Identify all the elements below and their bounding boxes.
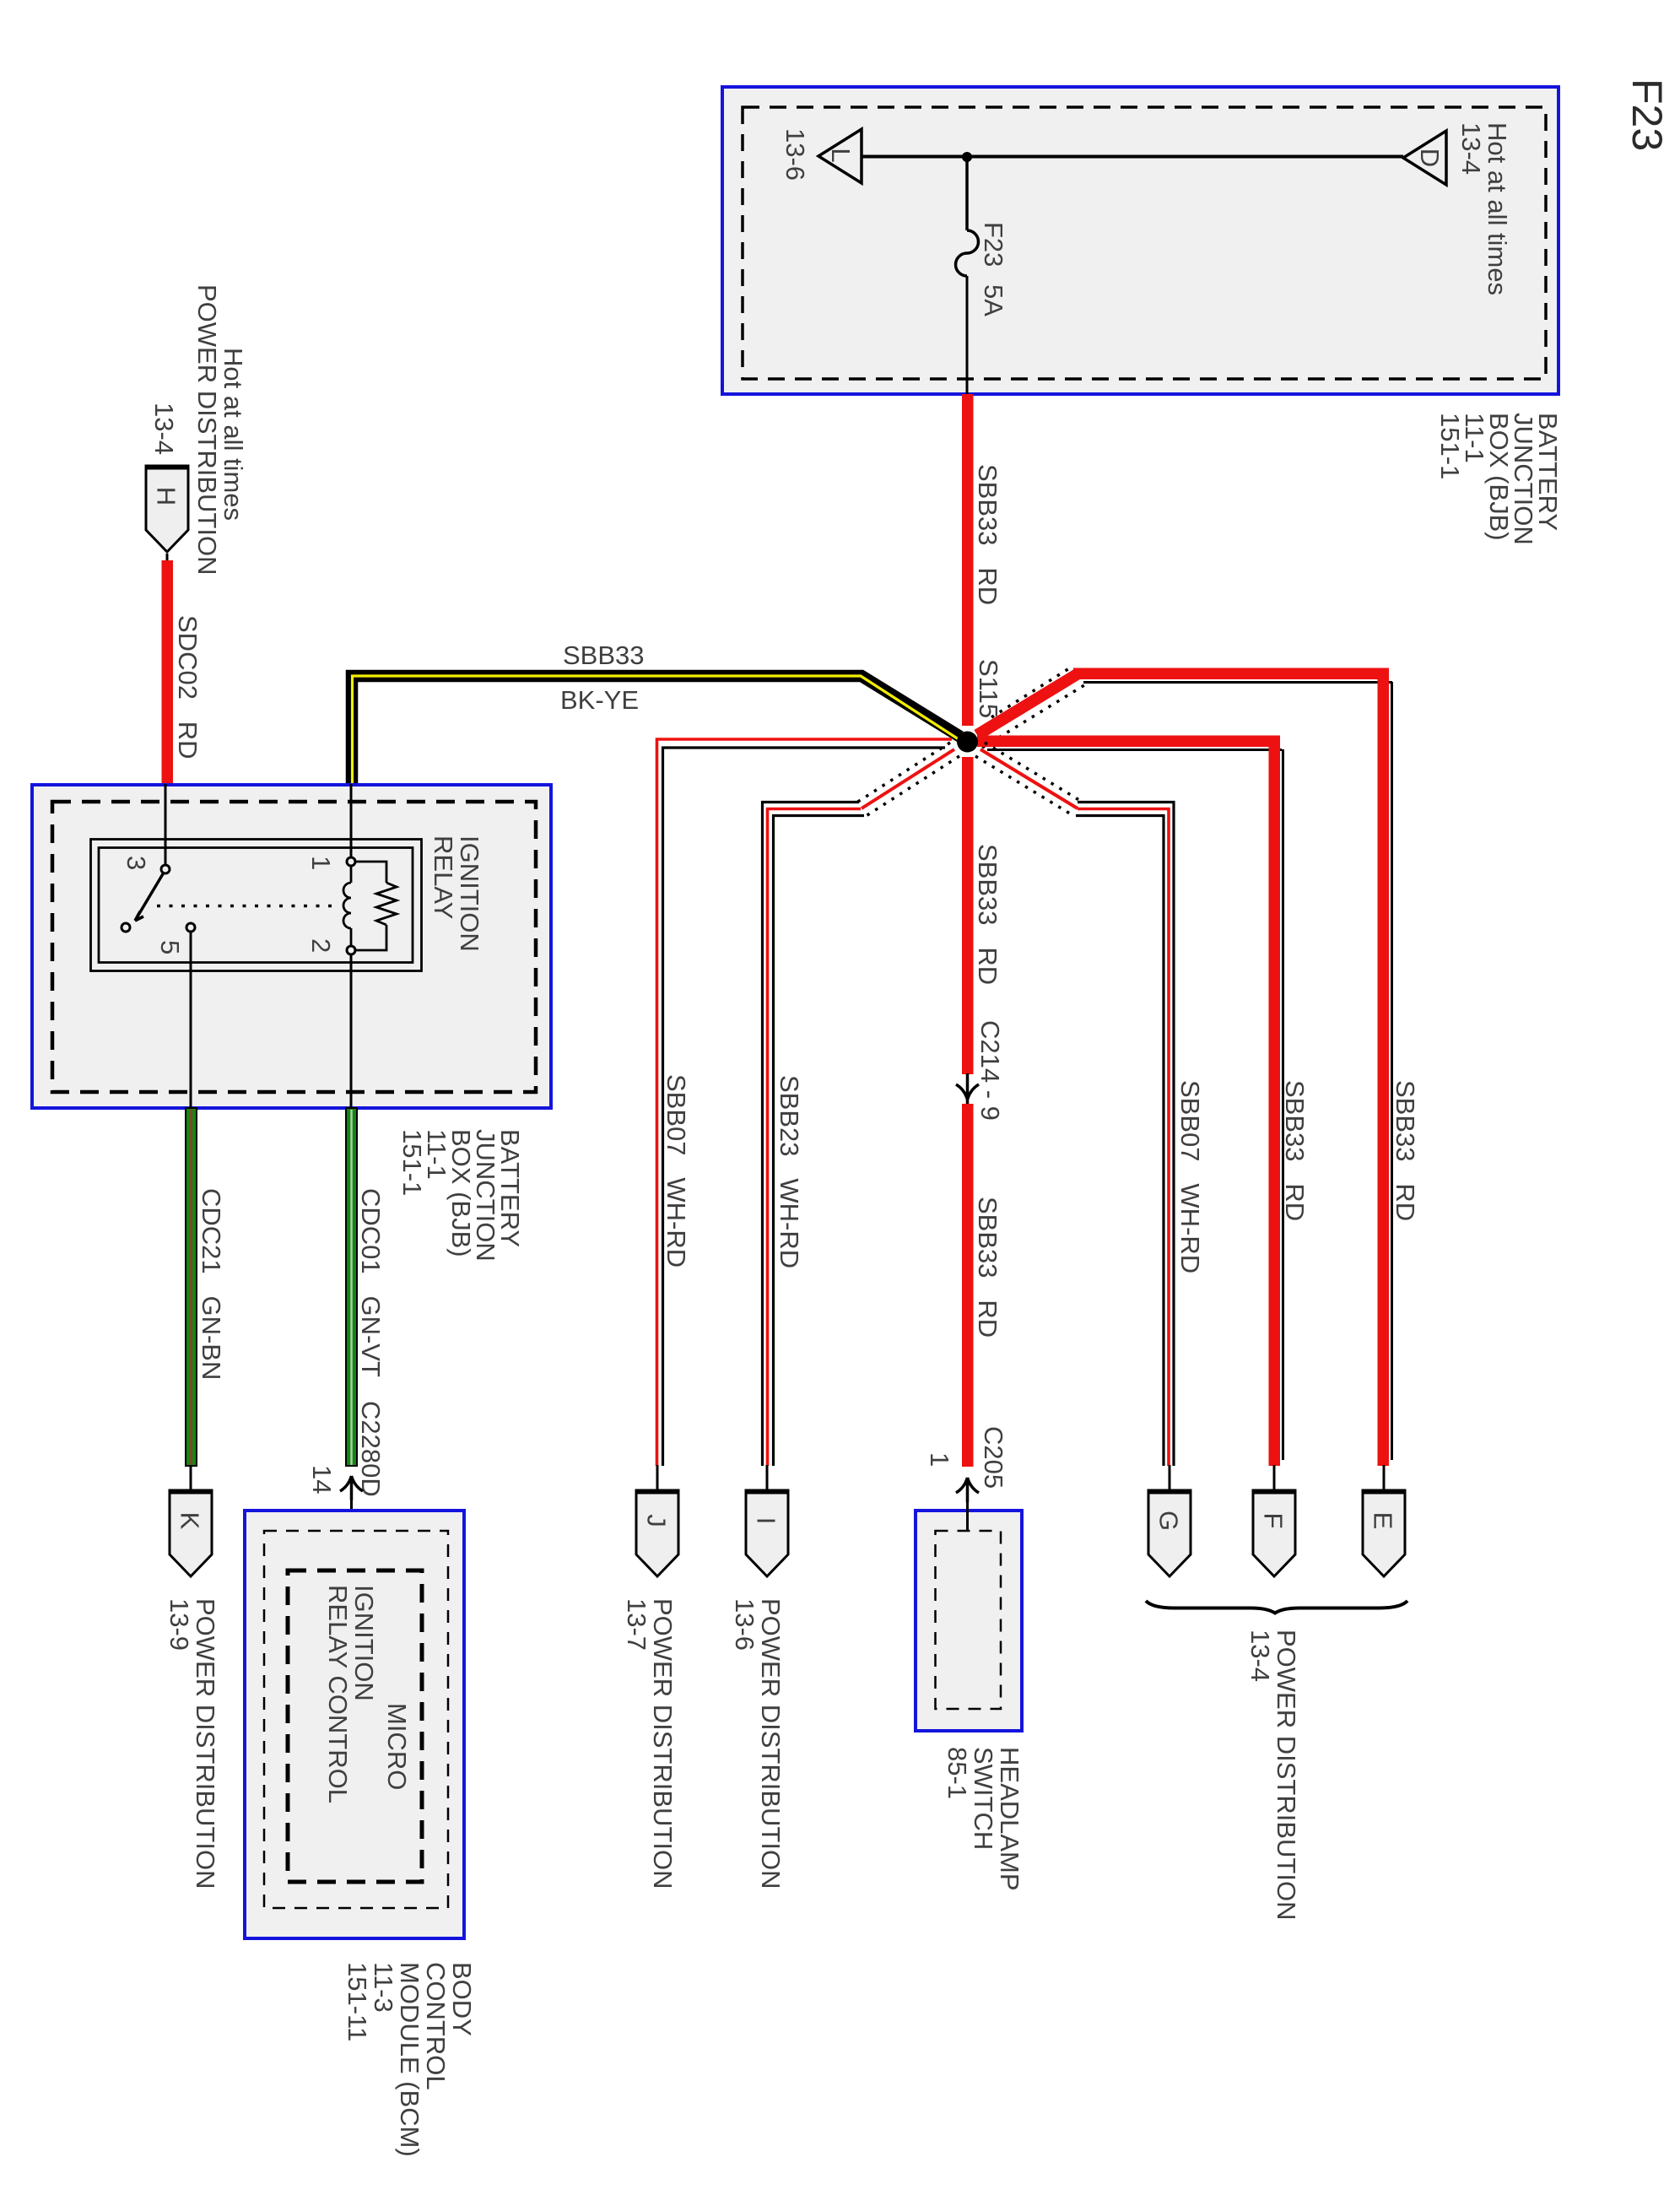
svg-text:Hot at all times: Hot at all times — [219, 348, 248, 521]
triangle connector D — [1403, 131, 1446, 185]
relay switch arm — [135, 873, 164, 921]
wire SDC02 RD — [162, 560, 174, 784]
connector J thick top bar — [635, 1490, 679, 1495]
relay coil lead lower — [350, 928, 353, 946]
connector G — [1148, 1490, 1191, 1576]
svg-text:POWER DISTRIBUTION: POWER DISTRIBUTION — [192, 284, 222, 575]
relay coil lead upper — [350, 866, 353, 883]
wire CDC21 brown stripe — [190, 1110, 192, 1465]
connector E thick top bar — [1362, 1490, 1406, 1495]
junction node on bus — [962, 152, 972, 162]
ignition relay outer case — [91, 840, 422, 971]
branch E dotted flank upper — [991, 666, 1073, 717]
svg-text:I: I — [752, 1517, 781, 1525]
branch F black shadow under horizontal — [987, 749, 1282, 751]
branch E dotted flank lower — [982, 685, 1084, 748]
svg-text:G: G — [1154, 1511, 1184, 1531]
brace grouping E F G — [1146, 1601, 1407, 1614]
svg-text:13-7: 13-7 — [622, 1598, 651, 1651]
svg-text:SBB07 WH-RD: SBB07 WH-RD — [1175, 1080, 1205, 1273]
fuse F23 lower lead — [966, 276, 969, 394]
wire stub connector E — [1383, 1465, 1386, 1492]
svg-text:E: E — [1369, 1512, 1398, 1530]
splice S115 — [957, 732, 978, 753]
svg-text:13-9: 13-9 — [165, 1598, 194, 1651]
body control module (BCM) box — [245, 1511, 464, 1938]
wire stub connector G — [1169, 1465, 1171, 1492]
wire into pin 3 — [165, 784, 167, 866]
svg-text:POWER DISTRIBUTION: POWER DISTRIBUTION — [1272, 1630, 1301, 1920]
relay dotted actuator line — [157, 905, 338, 908]
svg-text:J: J — [642, 1514, 672, 1527]
wire SBB33 RD from BJB to S115 — [962, 394, 974, 726]
headlamp switch box — [916, 1511, 1022, 1731]
svg-text:C214 - 9: C214 - 9 — [975, 1020, 1005, 1121]
wire into BCM micro — [350, 1500, 353, 1570]
branch G white-red wire horizontal: top black — [1078, 803, 1174, 1467]
battery junction box (BJB) relay section — [32, 785, 551, 1108]
svg-text:S115: S115 — [974, 659, 1003, 718]
connector H thick top bar — [145, 466, 189, 470]
branch G dotted flank lower — [975, 756, 1073, 816]
svg-text:1: 1 — [925, 1452, 954, 1467]
svg-text:SBB33 RD: SBB33 RD — [1391, 1080, 1420, 1221]
svg-text:C205: C205 — [979, 1426, 1008, 1489]
wire stub below H — [166, 554, 169, 562]
ignition relay inner case — [99, 848, 413, 963]
branch I dotted flank upper — [857, 743, 950, 803]
relay pin 1 — [347, 857, 355, 866]
branch I bottom black — [774, 816, 865, 1467]
svg-text:F23: F23 — [1623, 78, 1671, 151]
branch F: wire SBB33 RD horizontal from S115 — [977, 736, 1280, 748]
svg-text:F23: F23 — [979, 222, 1008, 267]
svg-text:13-6: 13-6 — [781, 128, 810, 181]
connector I — [746, 1490, 788, 1576]
branch I dotted flank lower — [867, 756, 959, 816]
branch G red stripe — [1078, 809, 1169, 1467]
yellow stripe of SBB33 BK-YE — [353, 676, 959, 784]
svg-text:L: L — [826, 148, 856, 162]
branch I white-red wire horizontal: top black — [763, 803, 860, 1467]
svg-text:CDC21 GN-BN: CDC21 GN-BN — [197, 1188, 226, 1380]
svg-text:CDC01 GN-VT: CDC01 GN-VT — [356, 1188, 386, 1377]
svg-text:SBB07 WH-RD: SBB07 WH-RD — [662, 1074, 691, 1268]
wire CDC01 GN-VT — [346, 1108, 357, 1466]
branch I red stripe — [768, 809, 862, 1467]
svg-text:13-6: 13-6 — [730, 1598, 759, 1651]
branch E black shadow right of vertical — [1391, 682, 1393, 1460]
connector I thick top bar — [745, 1490, 789, 1495]
svg-text:SBB23 WH-RD: SBB23 WH-RD — [775, 1075, 804, 1268]
svg-text:3: 3 — [122, 856, 151, 870]
relay resistor zigzag — [376, 883, 397, 925]
wire CDC01 violet stripe — [350, 1110, 353, 1465]
connector H — [146, 466, 188, 552]
svg-text:13-4: 13-4 — [149, 403, 179, 455]
branch E vertical run to connector E — [1378, 668, 1390, 1467]
in-line connector C214-9 arrow — [956, 1073, 979, 1104]
svg-text:D: D — [1415, 149, 1445, 167]
wire bus D to L — [862, 155, 1403, 159]
wire stub connector I — [766, 1465, 769, 1492]
svg-text:2: 2 — [306, 938, 336, 953]
connector E — [1363, 1490, 1405, 1576]
connector K — [170, 1490, 212, 1576]
connector C205 arrow — [956, 1478, 979, 1502]
svg-text:SBB33 RD: SBB33 RD — [973, 464, 1002, 605]
svg-text:14: 14 — [307, 1465, 337, 1494]
svg-text:C2280D: C2280D — [356, 1401, 386, 1497]
wire pin 5 to box edge — [190, 932, 192, 1108]
svg-text:POWER DISTRIBUTION: POWER DISTRIBUTION — [648, 1598, 678, 1889]
branch G bottom black — [1076, 816, 1164, 1467]
relay section dashed border — [52, 802, 536, 1092]
branch F black shadow right of vertical — [1282, 749, 1284, 1460]
relay switch contact — [122, 923, 130, 932]
svg-text:POWER DISTRIBUTION: POWER DISTRIBUTION — [756, 1598, 786, 1889]
svg-text:SBB33: SBB33 — [563, 641, 645, 670]
connector G thick top bar — [1148, 1490, 1191, 1495]
svg-text:F: F — [1259, 1513, 1288, 1529]
relay coil — [343, 883, 351, 928]
connector C2280D arrow — [340, 1476, 363, 1500]
wire SBB33 BK-YE from S115 to ignition relay — [352, 676, 960, 784]
relay pin 2 — [347, 946, 355, 954]
relay pin 3 — [161, 865, 170, 873]
BCM dashed border — [264, 1531, 448, 1908]
branch F vertical run to connector F — [1269, 736, 1281, 1467]
branch G: red stripe diagonal from S115 — [980, 749, 1078, 808]
svg-text:5: 5 — [155, 940, 185, 954]
relay resistor branch bottom wire — [355, 925, 386, 950]
branch G dotted flank upper — [985, 743, 1083, 803]
svg-text:5A: 5A — [979, 284, 1008, 316]
triangle connector L — [818, 129, 862, 183]
branch I: red stripe diagonal from S115 — [862, 749, 954, 808]
branch E horizontal run — [1073, 668, 1389, 680]
wire SBB33 RD from S115 to C214 — [962, 757, 974, 1074]
headlamp switch dashed border — [936, 1531, 1002, 1709]
wire SBB33 RD from C214 to C205 — [962, 1104, 974, 1467]
branch E black shadow under horizontal — [1083, 681, 1392, 684]
connector K thick top bar — [169, 1490, 213, 1495]
branch E: wire SBB33 RD diagonal from S115 — [977, 673, 1078, 735]
svg-text:POWER DISTRIBUTION: POWER DISTRIBUTION — [191, 1598, 220, 1889]
wire into headlamp switch — [966, 1502, 969, 1531]
fuse F23 element — [956, 230, 979, 276]
svg-text:13-4: 13-4 — [1245, 1630, 1275, 1682]
wire pin 2 to box edge — [350, 954, 353, 1108]
wire stub connector F — [1273, 1465, 1276, 1492]
wire into pin 1 — [350, 784, 353, 858]
branch J: red stripe horizontal from S115 — [657, 739, 953, 1466]
micro bold dashed box — [288, 1570, 422, 1882]
relay resistor branch top wire — [355, 862, 386, 883]
svg-text:H: H — [152, 487, 181, 505]
svg-text:SBB33 RD: SBB33 RD — [973, 1197, 1002, 1338]
connector J — [636, 1490, 678, 1576]
BJB inner dashed border — [743, 107, 1546, 379]
branch J black line — [663, 748, 946, 1466]
svg-text:SBB33 RD: SBB33 RD — [1280, 1080, 1310, 1221]
relay pin 5 — [186, 923, 195, 932]
battery junction box (BJB) top — [722, 87, 1558, 394]
wire CDC21 GN-BN — [186, 1108, 197, 1466]
wire stub connector J — [656, 1465, 659, 1492]
svg-text:SBB33 RD: SBB33 RD — [973, 844, 1002, 985]
svg-text:1: 1 — [306, 856, 336, 870]
svg-text:SDC02 RD: SDC02 RD — [173, 615, 203, 759]
svg-text:BK-YE: BK-YE — [560, 685, 639, 715]
connector F — [1253, 1490, 1295, 1576]
connector F thick top bar — [1252, 1490, 1296, 1495]
svg-text:K: K — [176, 1512, 205, 1530]
svg-text:MICRO: MICRO — [382, 1703, 412, 1790]
fuse F23 tap wire — [965, 157, 969, 230]
wire stub connector K — [190, 1465, 192, 1492]
